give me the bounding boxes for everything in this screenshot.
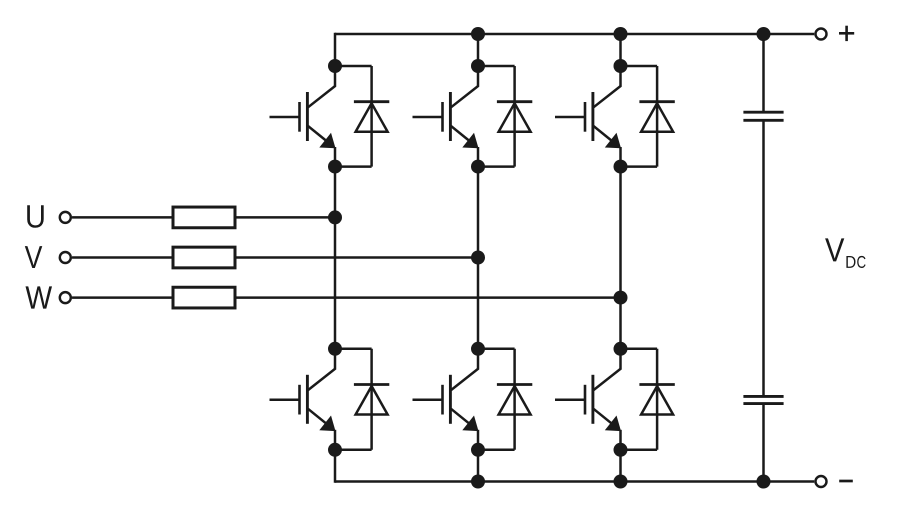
plus sign label (839, 26, 854, 41)
wire U terminal to resistor (72, 216, 173, 219)
resistor RU (173, 207, 235, 228)
wire leg 1 top rail to upper cell (334, 33, 337, 66)
capacitor C1 (743, 112, 783, 120)
node dot bottom of cell 3 (614, 160, 628, 174)
junction dot DC bus on top rail (757, 27, 771, 41)
junction dot phase V (471, 251, 485, 265)
diode D4 (335, 349, 389, 450)
IGBT Q3 (555, 66, 621, 167)
phase label U (27, 205, 43, 227)
DC- terminal circle (816, 476, 827, 487)
wire DC bus middle section (762, 120, 765, 396)
IGBT Q1 (270, 66, 336, 167)
input terminal circle V (60, 252, 71, 263)
input terminal circle W (60, 292, 71, 303)
node dot top of cell 4 (328, 342, 342, 356)
node dot bottom of cell 5 (471, 443, 485, 457)
node dot top of cell 1 (328, 59, 342, 73)
wire resistor W to leg 3 (235, 296, 621, 299)
wire leg 1 lower cell to bottom rail (334, 450, 337, 483)
node dot bottom of cell 2 (471, 160, 485, 174)
wire DC bus top section (762, 34, 765, 112)
bottom DC- rail wire (335, 480, 814, 483)
IGBT Q4 (270, 348, 336, 450)
wire leg 1 phase node vertical (334, 167, 337, 349)
top DC+ rail wire (335, 33, 814, 36)
node dot bottom of cell 1 (328, 160, 342, 174)
wire leg 3 lower cell to bottom rail (619, 450, 622, 483)
diode D3 (621, 66, 675, 167)
diode D6 (621, 349, 675, 450)
resistor RV (173, 247, 235, 268)
label VDC (825, 238, 844, 261)
wire resistor V to leg 2 (235, 256, 478, 259)
diode D2 (478, 66, 532, 167)
junction dot leg 3 on bottom rail (614, 475, 628, 489)
node dot top of cell 5 (471, 342, 485, 356)
junction dot leg 3 on top rail (614, 27, 628, 41)
wire leg 3 phase node vertical (619, 167, 622, 349)
IGBT Q5 (413, 348, 479, 450)
node dot top of cell 2 (471, 59, 485, 73)
node dot bottom of cell 6 (614, 443, 628, 457)
capacitor C2 (743, 396, 783, 403)
wire DC bus bottom section (762, 404, 765, 482)
input terminal circle U (60, 212, 71, 223)
IGBT Q6 (555, 348, 621, 450)
junction dot leg 2 on bottom rail (471, 475, 485, 489)
IGBT Q2 (413, 66, 479, 167)
wire leg 2 phase node vertical (477, 167, 480, 349)
diode D5 (478, 349, 532, 450)
wire W terminal to resistor (72, 296, 173, 299)
junction dot phase U (328, 210, 342, 224)
minus sign label (839, 480, 853, 483)
wire leg 2 lower cell to bottom rail (477, 450, 480, 483)
node dot top of cell 3 (614, 59, 628, 73)
node dot bottom of cell 4 (328, 443, 342, 457)
DC+ terminal circle (816, 29, 827, 40)
junction dot leg 2 on top rail (471, 27, 485, 41)
phase label V (25, 246, 42, 268)
phase label W (26, 286, 53, 308)
wire resistor U to leg 1 (235, 216, 335, 219)
node dot top of cell 6 (614, 342, 628, 356)
diode D1 (335, 66, 389, 167)
wire V terminal to resistor (72, 256, 173, 259)
resistor RW (173, 287, 235, 308)
junction dot phase W (614, 291, 628, 305)
junction dot DC bus on bottom rail (757, 475, 771, 489)
wire leg 2 top rail to upper cell (477, 33, 480, 66)
wire leg 3 top rail to upper cell (619, 33, 622, 66)
